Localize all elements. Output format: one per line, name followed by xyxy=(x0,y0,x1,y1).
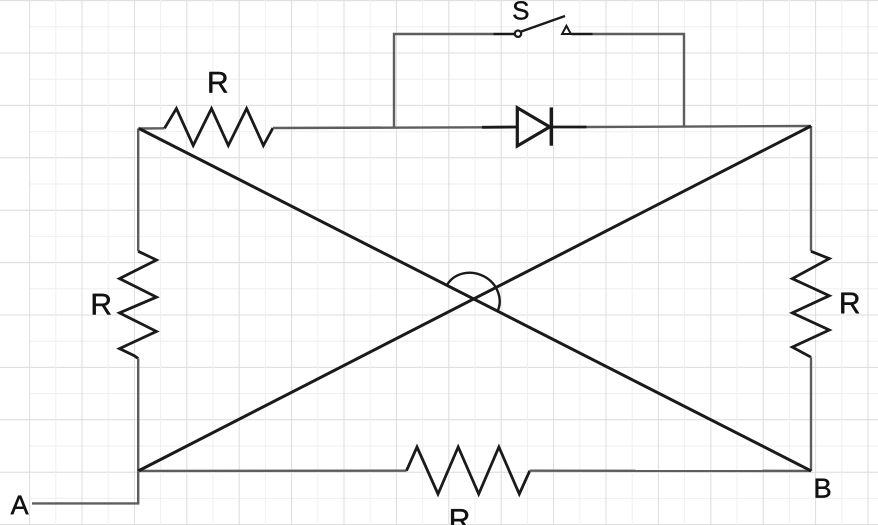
wire: left edge lower segment xyxy=(137,359,139,472)
wire: top edge right of diode to corner xyxy=(587,126,812,127)
wire: diode right lead (black) xyxy=(551,126,586,129)
switch S: blade xyxy=(521,16,565,32)
resistor R3 (right, vertical zigzag) xyxy=(792,251,829,357)
diode D1 cathode bar xyxy=(550,107,553,145)
label S (switch) xyxy=(513,1,528,19)
resistor R4 (bottom, horizontal zigzag) xyxy=(407,447,530,494)
wire: top edge between R1 and diode xyxy=(273,126,482,129)
label R (top resistor) xyxy=(209,72,227,93)
label R (bottom resistor) xyxy=(451,509,469,525)
crossing arc annotation xyxy=(447,273,500,312)
switch S: contact triangle xyxy=(562,26,571,34)
wire: diagonal top-left to bottom-right xyxy=(139,129,811,471)
label R (left resistor) xyxy=(93,294,111,315)
node B label xyxy=(816,479,831,498)
wire: top edge left lead (corner to R1) xyxy=(138,127,164,130)
resistor R2 (left, vertical zigzag) xyxy=(120,251,157,358)
resistor R1 (top, horizontal zigzag) xyxy=(165,109,273,146)
diode D1 (triangle) xyxy=(517,108,549,146)
wire: diagonal top-right to bottom-left xyxy=(138,126,811,471)
wire: left edge upper segment xyxy=(137,129,139,252)
switch S: pivot circle xyxy=(515,31,521,37)
switch S: left lead (black) xyxy=(494,33,515,36)
switch S: right lead (black) xyxy=(572,33,593,36)
label R (right resistor) xyxy=(841,293,859,314)
wire: diode left lead (black) xyxy=(482,126,517,129)
wire: switch branch left riser xyxy=(394,34,494,128)
wire: right edge lower segment xyxy=(810,357,812,471)
wire: bottom edge left segment xyxy=(138,470,406,473)
wire: bottom edge right segment xyxy=(530,470,811,473)
wire: right edge upper segment xyxy=(810,126,812,251)
wire: switch branch right riser xyxy=(593,34,685,127)
node A label xyxy=(11,496,29,515)
wire: terminal A lead xyxy=(32,471,138,503)
